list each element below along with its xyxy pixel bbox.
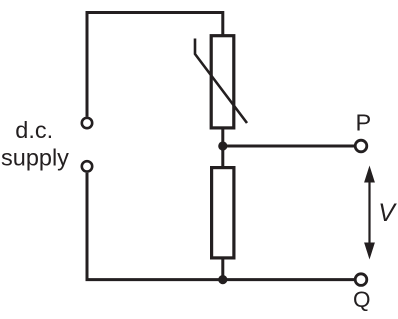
arrow: voltage V across P-Q, shaft	[368, 178, 370, 247]
arrow: bottom head	[364, 243, 375, 260]
wire: resistor bottom to bottom node	[221, 258, 224, 281]
svg-text:P: P	[356, 109, 372, 135]
svg-text:d.c.: d.c.	[15, 117, 53, 143]
svg-text:Q: Q	[353, 287, 371, 312]
terminal: d.c. supply positive	[82, 118, 92, 128]
svg-text:supply: supply	[1, 144, 69, 170]
terminal: d.c. supply negative	[82, 161, 92, 171]
wire: thermistor bottom to node	[221, 128, 224, 150]
wire: bottom rail from supply negative to terminal Q	[87, 173, 354, 280]
thermistor body	[211, 36, 234, 128]
wire: node to terminal P	[223, 145, 354, 148]
wire: supply + terminal up, across top, down to thermistor top	[87, 13, 223, 117]
svg-text:V: V	[378, 199, 397, 227]
node: bottom junction	[218, 275, 227, 284]
thermistor diagonal stroke	[195, 39, 247, 124]
resistor body	[212, 168, 234, 258]
arrow: top head	[364, 166, 375, 183]
wire: node to resistor top	[221, 144, 224, 167]
node: junction of thermistor, resistor, P	[218, 141, 227, 150]
terminal P	[355, 140, 367, 152]
terminal Q	[355, 274, 367, 286]
